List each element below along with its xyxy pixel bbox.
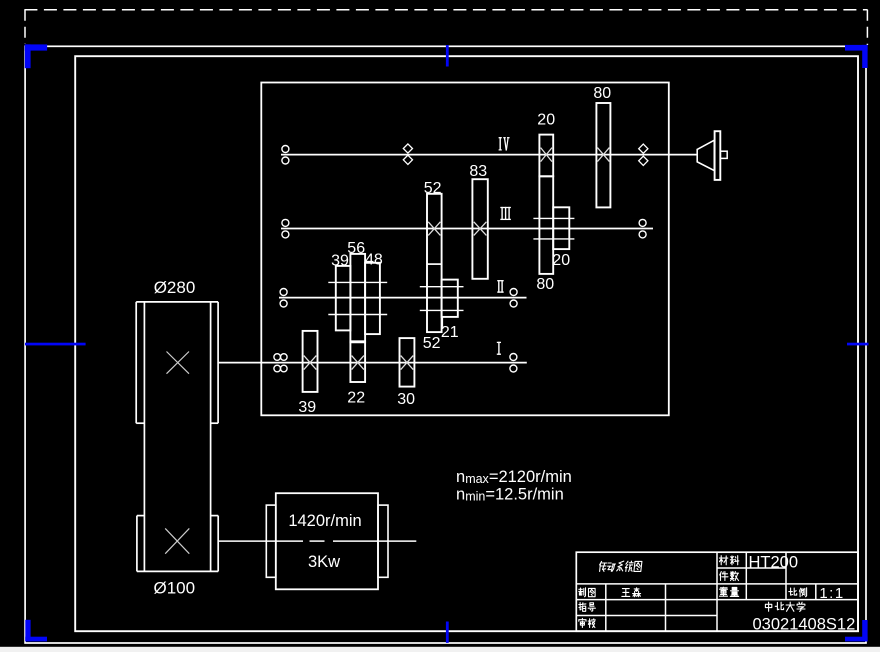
blue centering tick left: [25, 343, 86, 346]
gear 20 on shaft IV: [539, 135, 553, 177]
label zhitu: [579, 588, 586, 597]
svg-text:56: 56: [347, 240, 365, 257]
shaft IV line: [281, 154, 697, 156]
output nub: [720, 151, 727, 158]
school zhongbeidaxue: [765, 602, 771, 611]
svg-text:39: 39: [298, 399, 316, 416]
label cailiao: [719, 556, 727, 565]
motor shaft centerline: [218, 540, 303, 542]
svg-text:83: 83: [469, 163, 487, 180]
svg-text:Ø100: Ø100: [154, 579, 196, 598]
bearing shaft III left: [282, 219, 289, 226]
label bili: [789, 588, 797, 595]
gear 30 key cross: [401, 356, 414, 370]
pulley D280: [136, 301, 218, 303]
motor left flange: [266, 505, 276, 577]
name wangsen: [622, 589, 630, 597]
pulley D100 key cross: [165, 528, 189, 553]
svg-text:30: 30: [397, 391, 415, 408]
gear 20 shaft IV key cross: [541, 148, 552, 162]
gear 22 on shaft I: [350, 341, 365, 382]
label jianshu: [720, 572, 728, 581]
paper dashed boundary top: [24, 9, 867, 11]
shaft label IV: [499, 137, 502, 139]
blue centering tick right: [847, 343, 869, 346]
title text chuandongxitongtu: [600, 561, 607, 571]
output cone/horn: [697, 140, 714, 170]
bearing shaft II right: [510, 289, 517, 296]
output flange plate: [715, 131, 721, 180]
blue centering tick bottom: [446, 622, 449, 643]
svg-text:52: 52: [424, 180, 442, 197]
gear 56 on shaft II: [350, 254, 365, 342]
bearing shaft III right: [639, 219, 646, 226]
svg-text:22: 22: [347, 390, 365, 407]
svg-text:Ø280: Ø280: [154, 278, 196, 297]
spline lines shaft II at triple gear: [328, 281, 387, 283]
label zhongliang: [720, 587, 728, 596]
gearbox enclosure box: [261, 83, 669, 416]
shaft II line: [279, 297, 527, 299]
blue corner mark top-right: [845, 45, 868, 51]
spline lines shaft III block: [533, 217, 574, 219]
gear 30 on shaft I: [400, 338, 415, 387]
divider of 52/52 block: [427, 263, 442, 265]
gear 83 key cross: [474, 222, 487, 236]
motor body: [276, 493, 378, 589]
blue corner mark top-left: [25, 44, 47, 50]
gear 39 on shaft I: [303, 331, 318, 392]
svg-text:HT200: HT200: [749, 553, 799, 571]
svg-text:1:1: 1:1: [819, 585, 844, 602]
paper dashed boundary left segment: [24, 10, 26, 44]
shaft label I: [497, 341, 501, 343]
gear 52 key cross: [428, 222, 440, 236]
gear 39 shaft I key cross: [304, 356, 317, 370]
shaft label III: [500, 207, 511, 209]
bearing shaft I right: [510, 354, 517, 361]
svg-text:80: 80: [593, 85, 611, 102]
gear 21 on shaft II: [442, 280, 458, 317]
svg-text:21: 21: [441, 324, 459, 341]
gear 80 shaft IV key cross: [597, 148, 609, 162]
shaft label II: [497, 280, 504, 282]
diamond symbols shaft IV mid: [403, 144, 412, 153]
gear 83 on shaft III: [472, 179, 487, 279]
label zhidao: [579, 602, 586, 611]
gear 22 key cross: [352, 356, 364, 370]
double gear 52/52 (shafts III-II): [427, 194, 442, 332]
paper dashed boundary right segment: [866, 10, 868, 45]
blue centering tick top: [446, 45, 449, 67]
label shenhe: [579, 618, 586, 627]
svg-text:52: 52: [423, 335, 441, 352]
bearing shaft IV left: [282, 146, 289, 153]
pulley D100: [136, 516, 138, 572]
svg-text:20: 20: [537, 112, 555, 129]
svg-text:1420r/min: 1420r/min: [288, 512, 361, 530]
title block grid lines: [717, 567, 786, 569]
gear 39 on shaft II: [336, 266, 351, 331]
gear 48 on shaft II: [365, 263, 380, 334]
svg-text:80: 80: [536, 276, 554, 293]
diamond symbols shaft IV right: [639, 144, 648, 153]
inner drawing frame: [75, 56, 858, 631]
svg-text:3Kw: 3Kw: [308, 553, 340, 571]
bearing shaft I left (double): [274, 354, 281, 361]
belt lines: [143, 302, 145, 572]
title block outer: [576, 552, 858, 631]
bottom gray window strip: [0, 647, 880, 652]
gear 80 on shaft III (sliding block): [539, 176, 553, 274]
gear 80 on shaft IV: [596, 103, 610, 207]
svg-text:48: 48: [365, 251, 383, 268]
svg-text:03021408S12: 03021408S12: [753, 615, 856, 633]
gear 21 step edge: [441, 317, 443, 327]
spline lines shaft II at 52/21: [420, 286, 464, 288]
blue corner mark bottom-right: [845, 637, 868, 642]
blue corner mark bottom-left: [25, 637, 47, 642]
svg-text:20: 20: [552, 252, 570, 269]
gear 20 on shaft III (sliding block): [553, 207, 569, 249]
shaft III line: [281, 228, 653, 230]
pulley D280 key cross: [167, 352, 190, 374]
shaft I line: [218, 362, 527, 364]
bearing shaft II left: [280, 289, 287, 296]
motor right flange: [378, 505, 388, 577]
